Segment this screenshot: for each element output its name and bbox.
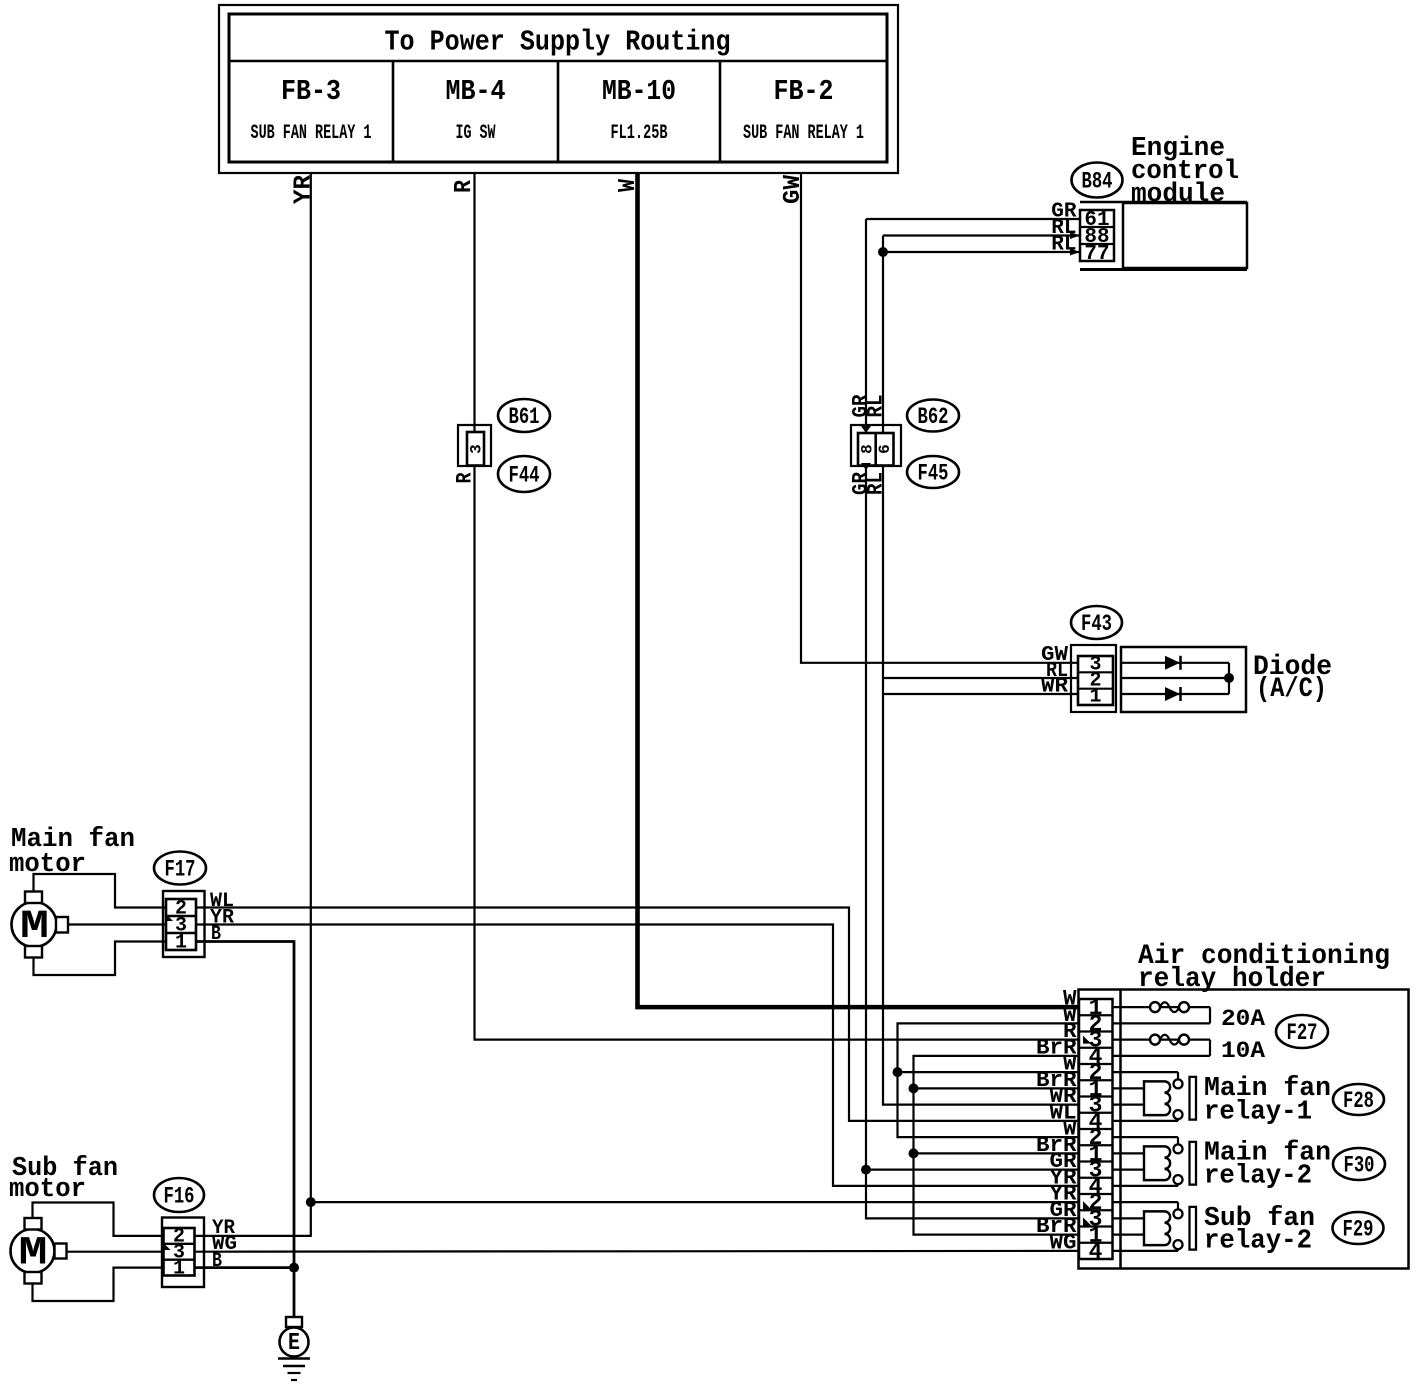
svg-text:6: 6 <box>876 444 894 454</box>
svg-text:SUB FAN RELAY 1: SUB FAN RELAY 1 <box>251 122 372 145</box>
svg-text:F28: F28 <box>1343 1088 1374 1114</box>
svg-text:10A: 10A <box>1221 1038 1265 1064</box>
svg-text:1: 1 <box>173 1258 185 1281</box>
svg-text:4: 4 <box>1089 1239 1103 1265</box>
svg-text:F17: F17 <box>165 856 196 882</box>
svg-text:B61: B61 <box>509 404 540 430</box>
svg-text:YR: YR <box>291 174 318 204</box>
svg-text:8: 8 <box>859 444 877 454</box>
svg-text:RL: RL <box>864 395 889 418</box>
svg-text:F29: F29 <box>1343 1216 1374 1242</box>
svg-text:1: 1 <box>1089 686 1101 709</box>
svg-text:To Power Supply Routing: To Power Supply Routing <box>385 26 731 59</box>
svg-text:B: B <box>211 923 221 946</box>
svg-text:F30: F30 <box>1344 1152 1375 1178</box>
svg-text:relay-1: relay-1 <box>1204 1097 1312 1127</box>
svg-text:B84: B84 <box>1082 168 1113 194</box>
svg-text:M: M <box>20 905 49 950</box>
svg-text:R: R <box>451 179 478 193</box>
svg-text:motor: motor <box>9 1175 86 1205</box>
svg-text:3: 3 <box>468 444 486 454</box>
svg-text:relay-2: relay-2 <box>1204 1226 1312 1256</box>
svg-text:WG: WG <box>1049 1229 1076 1255</box>
svg-text:F44: F44 <box>509 462 540 488</box>
svg-text:GW: GW <box>780 174 807 204</box>
svg-text:FL1.25B: FL1.25B <box>611 122 668 145</box>
svg-text:77: 77 <box>1084 243 1109 266</box>
svg-text:M: M <box>19 1232 48 1277</box>
svg-text:B: B <box>212 1250 222 1273</box>
svg-text:MB-10: MB-10 <box>602 75 676 108</box>
svg-text:R: R <box>453 472 478 484</box>
svg-text:F45: F45 <box>918 460 949 486</box>
svg-text:F43: F43 <box>1081 611 1112 637</box>
svg-text:1: 1 <box>175 932 187 955</box>
svg-text:B62: B62 <box>918 404 949 430</box>
svg-text:WR: WR <box>1041 676 1068 699</box>
svg-text:IG SW: IG SW <box>456 122 496 145</box>
svg-text:FB-2: FB-2 <box>774 75 834 108</box>
svg-text:relay-2: relay-2 <box>1204 1161 1312 1191</box>
svg-text:F16: F16 <box>164 1183 195 1209</box>
svg-text:F27: F27 <box>1287 1020 1318 1046</box>
svg-text:W: W <box>615 178 642 192</box>
svg-text:MB-4: MB-4 <box>446 75 506 108</box>
svg-text:20A: 20A <box>1221 1006 1265 1032</box>
svg-text:SUB FAN RELAY 1: SUB FAN RELAY 1 <box>743 122 864 145</box>
svg-text:E: E <box>288 1330 300 1357</box>
svg-text:motor: motor <box>9 850 86 880</box>
svg-text:(A/C): (A/C) <box>1256 674 1327 705</box>
svg-text:RL: RL <box>864 472 889 495</box>
svg-text:FB-3: FB-3 <box>281 75 341 108</box>
svg-text:RL: RL <box>1051 234 1076 257</box>
